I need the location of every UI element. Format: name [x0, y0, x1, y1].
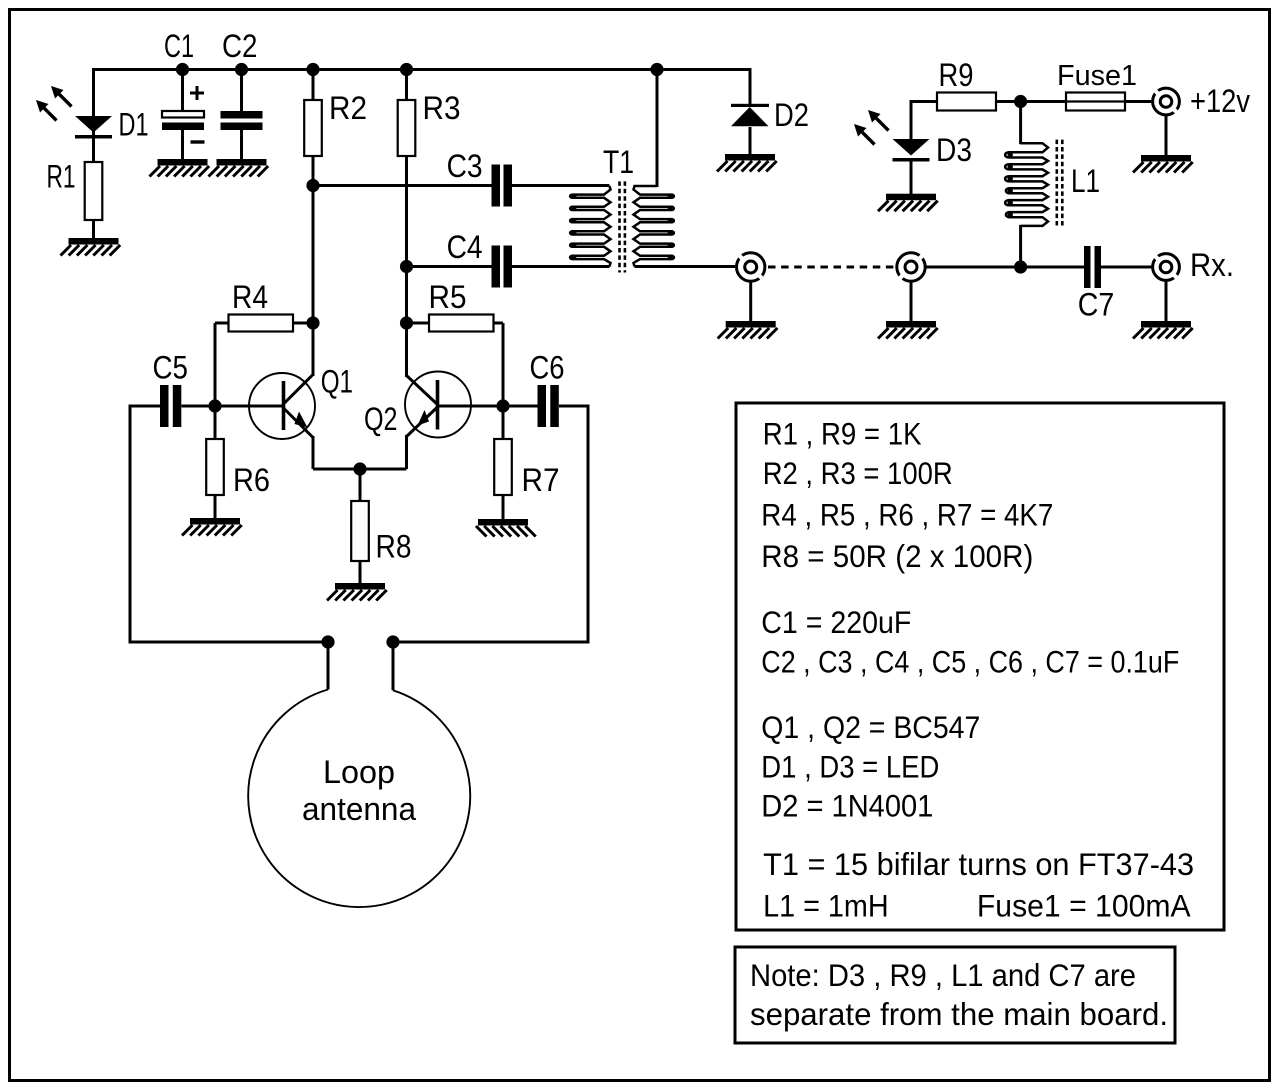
wire C7 to Rx terminal — [1101, 266, 1153, 269]
wire L1 bottom lead — [1019, 225, 1022, 267]
wire R3 bottom / Q2 collector — [405, 156, 408, 377]
svg-text:R2 , R3 = 100R: R2 , R3 = 100R — [763, 455, 953, 491]
svg-text:R2: R2 — [329, 90, 367, 126]
ground J1 — [726, 321, 776, 328]
wire D3 top — [911, 100, 938, 103]
svg-text:+12v: +12v — [1190, 83, 1250, 119]
svg-text:R4 , R5 , R6 , R7 = 4K7: R4 , R5 , R6 , R7 = 4K7 — [761, 497, 1053, 533]
node R5 junction — [400, 316, 413, 329]
connector J2 socket — [897, 253, 925, 281]
transformer T1 core — [618, 181, 621, 272]
wire loop right stub — [392, 642, 395, 690]
capacitor C1 — [162, 111, 204, 118]
wire R3 top lead — [405, 70, 408, 101]
LED D3 arrows — [874, 116, 889, 131]
node R4 junction — [306, 316, 319, 329]
wire R4 left arm — [214, 323, 217, 406]
wire D3 to ground — [910, 159, 913, 195]
svg-text:D1: D1 — [119, 106, 149, 142]
wire R1 to ground — [92, 220, 95, 240]
wire C6 right lead — [559, 405, 588, 408]
wire R7 top lead — [502, 406, 505, 439]
wire C4 right lead — [512, 265, 610, 268]
diode D2 — [731, 104, 769, 107]
wire R2 top lead — [312, 70, 315, 101]
ground Rx — [1141, 321, 1191, 328]
svg-text:Fuse1: Fuse1 — [1057, 60, 1137, 92]
svg-text:D2: D2 — [774, 97, 809, 133]
node C3 tap junction — [306, 179, 319, 192]
ground R1 — [69, 238, 119, 245]
node R9 Fuse1 L1 junction — [1014, 95, 1027, 108]
capacitor C6 — [538, 385, 547, 427]
svg-text:Rx.: Rx. — [1190, 247, 1234, 283]
ground +12v — [1141, 155, 1191, 162]
svg-text:R5: R5 — [429, 279, 467, 315]
node R2 junction — [306, 63, 319, 76]
wire dashed coax link — [768, 266, 895, 269]
connector J1 socket — [737, 253, 765, 281]
wire L1 top lead — [1019, 102, 1022, 145]
svg-text:Q2: Q2 — [364, 401, 398, 437]
svg-text:Note: D3 , R9 , L1 and C7 are: Note: D3 , R9 , L1 and C7 are — [750, 957, 1136, 993]
svg-text:C7: C7 — [1078, 287, 1115, 323]
node T1 junction — [650, 63, 663, 76]
resistor R9 — [937, 93, 996, 111]
wire loop left stub — [327, 642, 330, 690]
wire R6 to ground — [214, 495, 217, 519]
svg-text:C6: C6 — [530, 350, 565, 386]
svg-text:L1: L1 — [1071, 163, 1100, 199]
wire C1 to ground — [181, 130, 184, 160]
capacitor C7 — [1084, 246, 1091, 288]
capacitor C5 — [160, 385, 169, 427]
svg-text:R4: R4 — [232, 279, 268, 315]
wire R7 to ground — [502, 495, 505, 519]
ground C2 — [217, 159, 267, 166]
svg-text:L1 = 1mH: L1 = 1mH — [763, 888, 889, 924]
capacitor C4 — [492, 246, 501, 288]
connector Rx terminal — [1153, 254, 1180, 281]
svg-text:separate from the main board.: separate from the main board. — [750, 996, 1168, 1032]
wire right loop arm — [587, 405, 590, 644]
fuse Fuse1 — [1066, 93, 1125, 111]
wire J2 to C7 — [925, 266, 1084, 269]
ground D2 — [725, 154, 775, 161]
wire Q1 emitter — [312, 436, 315, 469]
svg-text:R8: R8 — [376, 529, 412, 565]
transformer T1 secondary winding — [634, 186, 674, 267]
capacitor C2 — [221, 111, 263, 119]
ground R8 — [335, 583, 385, 590]
transformer T1 primary winding — [570, 186, 610, 267]
wire left loop arm — [129, 405, 132, 644]
node L1 bottom junction — [1014, 260, 1027, 273]
node emitter junction — [353, 462, 366, 475]
svg-text:R1: R1 — [47, 158, 76, 194]
svg-text:Loop: Loop — [323, 754, 395, 790]
wire C3 right lead — [512, 184, 610, 187]
wire C3 left lead — [313, 184, 492, 187]
wire T1 secondary top to rail — [656, 70, 659, 188]
C1 minus sign — [191, 140, 205, 143]
node R3 junction — [400, 63, 413, 76]
ground D3 — [886, 194, 936, 201]
svg-text:C2 , C3 , C4 , C5 , C6 , C7 =: C2 , C3 , C4 , C5 , C6 , C7 = 0.1uF — [761, 644, 1179, 680]
svg-text:C1 = 220uF: C1 = 220uF — [761, 604, 911, 640]
wire C5 left lead — [130, 405, 160, 408]
resistor R3 — [398, 100, 416, 156]
LED D1 — [75, 116, 112, 133]
ground R7 — [478, 519, 528, 526]
inductor L1 core — [1056, 140, 1059, 228]
svg-text:Q1: Q1 — [321, 364, 353, 400]
wire D2 to ground — [749, 127, 752, 156]
wire rail to D2 — [749, 68, 752, 105]
svg-text:R9: R9 — [939, 57, 974, 93]
wire R8 to ground — [359, 561, 362, 585]
wire Q2 emitter — [405, 435, 408, 469]
ground C1 — [158, 159, 208, 166]
wire Rx terminal to ground — [1165, 280, 1168, 322]
wire fuse to +12v terminal — [1125, 100, 1153, 103]
wire C4 left lead — [407, 265, 492, 268]
C1 plus sign — [190, 92, 204, 95]
resistor R2 — [304, 100, 322, 156]
wire R5 left lead — [407, 322, 430, 325]
svg-text:R1 , R9 = 1K: R1 , R9 = 1K — [763, 416, 922, 452]
wire D1 drop — [92, 68, 95, 162]
svg-text:D3: D3 — [936, 132, 972, 168]
svg-text:C1: C1 — [164, 28, 194, 64]
ground R6 — [190, 518, 240, 525]
svg-text:Fuse1 = 100mA: Fuse1 = 100mA — [977, 888, 1191, 924]
resistor R4 — [229, 315, 294, 332]
svg-text:R3: R3 — [423, 90, 461, 126]
LED D3 — [893, 139, 930, 156]
wire +12v terminal to ground — [1165, 115, 1168, 157]
node Q1 base junction — [208, 399, 221, 412]
wire R8 top lead — [359, 469, 362, 501]
wire C1 lead — [181, 70, 184, 112]
node C2 junction — [235, 63, 248, 76]
svg-text:C4: C4 — [447, 229, 483, 265]
wire R9 to fuse — [996, 100, 1066, 103]
wire C2 to ground — [240, 130, 243, 160]
svg-text:R7: R7 — [522, 462, 560, 498]
wire Q2 base to C6 — [438, 405, 538, 408]
resistor R8 — [351, 501, 369, 561]
svg-text:T1: T1 — [603, 144, 634, 180]
svg-text:C5: C5 — [153, 350, 189, 386]
wire J1 to ground — [749, 281, 752, 322]
svg-text:T1 = 15 bifilar turns on FT37-: T1 = 15 bifilar turns on FT37-43 — [763, 846, 1194, 882]
resistor R7 — [494, 439, 512, 495]
wire T1 secondary bottom to socket — [635, 265, 737, 268]
wire R6 top lead — [214, 406, 217, 439]
note box — [735, 947, 1175, 1043]
parts list box — [736, 403, 1224, 930]
svg-text:D1 , D3 = LED: D1 , D3 = LED — [761, 749, 939, 785]
resistor R1 — [85, 162, 103, 220]
wire +V top rail — [94, 68, 751, 71]
svg-text:Q1 , Q2 = BC547: Q1 , Q2 = BC547 — [761, 709, 980, 745]
ground J2 — [886, 321, 936, 328]
wire R4 right lead — [293, 322, 313, 325]
wire R2 bottom / Q1 collector — [312, 156, 315, 376]
wire C5 to Q1 base — [182, 405, 283, 408]
wire R5 right arm — [494, 322, 504, 325]
svg-text:C2: C2 — [222, 28, 258, 64]
transistor Q1 — [249, 373, 315, 439]
svg-text:C3: C3 — [447, 148, 483, 184]
node loop left junction — [321, 635, 334, 648]
resistor R5 — [429, 315, 494, 332]
wire J2 to ground — [910, 281, 913, 322]
svg-text:D2 = 1N4001: D2 = 1N4001 — [761, 788, 933, 824]
node C4 tap junction — [400, 260, 413, 273]
node Q2 base junction — [496, 399, 509, 412]
node loop right junction — [386, 635, 399, 648]
capacitor C3 — [492, 165, 501, 207]
svg-text:R6: R6 — [233, 462, 270, 498]
wire C2 lead — [240, 70, 243, 112]
transistor Q2 — [405, 372, 471, 438]
svg-text:R8 = 50R (2 x 100R): R8 = 50R (2 x 100R) — [761, 538, 1033, 574]
svg-text:antenna: antenna — [302, 791, 416, 827]
node C1 junction — [176, 63, 189, 76]
connector +12v terminal — [1153, 88, 1180, 115]
inductor L1 — [1005, 143, 1048, 226]
loop antenna circle — [248, 690, 470, 908]
resistor R6 — [206, 439, 224, 495]
LED D1 arrows — [57, 92, 72, 107]
